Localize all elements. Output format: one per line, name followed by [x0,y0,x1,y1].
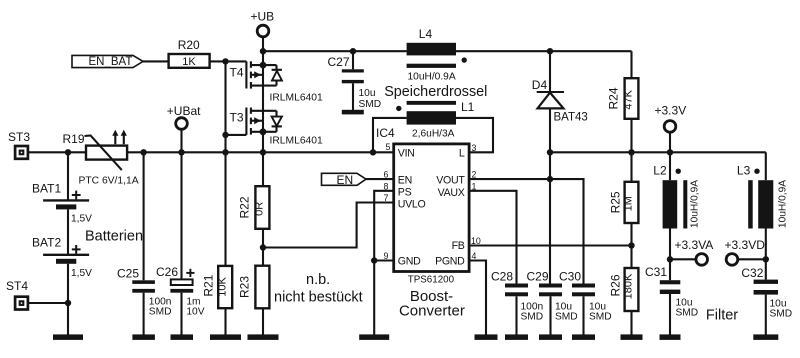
junction gate rail T3 [222,132,228,138]
svg-text:FB: FB [452,240,465,252]
svg-text:1,5V: 1,5V [71,268,92,279]
svg-text:SMD: SMD [555,312,578,323]
svg-text:BAT2: BAT2 [32,236,61,250]
transistor T4 [230,61,324,103]
ground C25 [132,334,155,340]
svg-text:EN: EN [398,174,412,186]
battery BAT2 [32,209,92,279]
transistor T3 [230,108,324,147]
inductor L2 [653,152,700,259]
svg-text:C31: C31 [645,265,667,279]
svg-text:T3: T3 [230,111,244,125]
junction ST4 / battery [65,300,71,306]
capacitor C25 [117,152,171,334]
svg-text:1K: 1K [182,56,196,68]
capacitor C29 [527,269,578,335]
ground R21 [210,334,241,340]
svg-text:+UB: +UB [251,10,275,24]
node +3.3VD [725,238,766,265]
junction +UB / top rail [260,48,266,54]
inductor L4 [407,27,467,82]
svg-text:ST4: ST4 [6,279,28,293]
svg-text:nicht bestückt: nicht bestückt [274,290,363,306]
svg-text:SMD: SMD [770,309,793,320]
wire ST4 to battery [27,302,68,304]
wire rail corner to L3 [765,152,767,180]
junction GND / PS [371,257,377,263]
IC IC4 TPS61200 boost converter [376,126,481,285]
junction battery rail / C25 [140,149,146,155]
svg-text:C32: C32 [741,266,763,280]
svg-text:R22: R22 [238,196,252,218]
junction battery rail / T3 R22 [260,149,266,155]
svg-text:PGND: PGND [435,255,465,267]
resistor R22 [238,152,270,265]
wire top rail +UB to L4 [263,50,407,52]
svg-text:C30: C30 [559,269,581,283]
wire main battery rail [27,151,393,153]
svg-text:10uH/0.9A: 10uH/0.9A [408,71,456,82]
wire PGND pin 4 to ground [469,261,486,335]
svg-text:ST3: ST3 [8,130,30,144]
wire D4 down through VOUT to C29 [549,152,551,283]
node +3.3VA [670,238,713,265]
svg-text:+3.3V: +3.3V [655,104,687,118]
node +UB [251,10,275,37]
wire EN_BAT to R20 [143,60,169,62]
diode D4 [532,51,588,152]
resistor R25 [609,152,639,245]
svg-text:L2: L2 [653,164,667,178]
junction top rail / C27 [350,48,356,54]
wire PS pin 8 to gnd rail [374,191,394,261]
wire FB pin 10 to R25/R26 [469,244,631,246]
svg-text:10K: 10K [217,276,229,296]
svg-text:GND: GND [398,255,421,267]
junction top rail / D4 [547,48,553,54]
ground IC4 GND [359,334,389,340]
svg-text:1M: 1M [623,196,635,211]
battery BAT1 [32,152,92,224]
ground C28 [505,334,528,340]
svg-text:C27: C27 [328,55,350,69]
svg-text:C28: C28 [491,269,513,283]
svg-text:EN_BAT: EN_BAT [89,56,133,68]
wire +UB rail down through T4 T3 [262,37,264,153]
svg-text:47K: 47K [623,89,635,109]
resistor R21 [201,152,232,334]
ground battery [53,334,83,340]
svg-text:10u: 10u [359,88,376,99]
svg-text:EN: EN [337,173,354,187]
svg-text:R19: R19 [63,132,85,146]
capacitor C30 [559,269,612,335]
wire L1 left lead [373,118,407,152]
ground C30 [572,334,595,340]
wire EN flag to pin 6 [366,178,394,180]
svg-text:SMD: SMD [359,99,382,110]
svg-text:R26: R26 [609,274,623,296]
ground PGND [475,334,498,340]
svg-text:IRLML6401: IRLML6401 [270,92,324,103]
svg-text:SMD: SMD [521,312,544,323]
ground C31 [660,334,681,340]
wire VOUT pin 2 to C30 [469,179,583,283]
svg-text:SMD: SMD [676,307,699,318]
svg-text:n.b.: n.b. [306,272,330,288]
svg-text:L1: L1 [461,100,475,114]
capacitor C28 [491,269,543,335]
wire battery to ground [67,264,69,335]
svg-text:IRLML6401: IRLML6401 [270,136,324,147]
svg-text:Filter: Filter [706,308,738,324]
wire VAUX pin 1 to C28 [469,191,516,284]
svg-text:R21: R21 [201,274,215,296]
svg-text:10uH/0,9A: 10uH/0,9A [690,180,701,228]
junction battery rail / BAT1 [65,149,71,155]
svg-text:L3: L3 [737,164,751,178]
svg-text:R25: R25 [609,191,623,213]
resistor R20 [169,38,210,68]
svg-text:TPS61200: TPS61200 [408,274,455,285]
ground C26 [171,334,194,340]
svg-text:D4: D4 [532,78,548,92]
svg-text:Batterien: Batterien [85,229,143,245]
junction D4 / right rail [547,149,553,155]
junction L2 / C31 / +3.3VA [667,256,673,262]
flag EN [322,173,367,187]
resistor R24 [607,51,639,152]
junction R25 R26 FB [628,242,634,248]
svg-text:R23: R23 [238,276,252,298]
svg-text:VOUT: VOUT [436,174,465,186]
svg-text:0R: 0R [254,202,266,216]
junction gate rail top [222,58,228,64]
svg-text:180K: 180K [623,273,635,299]
svg-text:SMD: SMD [589,312,612,323]
capacitor C31 [645,259,698,335]
svg-text:1,5V: 1,5V [71,214,92,225]
svg-text:R20: R20 [178,38,200,52]
svg-text:5: 5 [386,142,391,152]
junction right rail / +3.3V L2 [667,149,673,155]
svg-text:C29: C29 [527,269,549,283]
wire L1 right lead to pin L [456,118,493,152]
junction battery rail / R21 gate rail [222,149,228,155]
wire right output rail [550,151,766,153]
wire top rail L4 to R24 [456,50,632,52]
resistor R19 (PTC) [63,130,139,187]
wire gate to T3 [226,134,247,136]
ground C27 [342,110,364,115]
svg-text:R24: R24 [607,87,621,109]
svg-text:C25: C25 [117,267,139,281]
junction battery rail / L1 VIN [370,149,376,155]
svg-text:L4: L4 [419,27,433,41]
capacitor C27 [328,51,382,110]
svg-text:IC4: IC4 [376,126,395,140]
svg-text:BAT1: BAT1 [32,182,61,196]
svg-text:PTC 6V/1,1A: PTC 6V/1,1A [79,176,139,187]
resistor R26 [609,246,639,335]
svg-text:Converter: Converter [399,302,465,319]
connector ST3 [8,130,30,159]
svg-text:VAUX: VAUX [438,187,465,199]
svg-text:VIN: VIN [398,148,415,160]
svg-text:2,6uH/3A: 2,6uH/3A [412,129,455,140]
svg-text:Speicherdrossel: Speicherdrossel [384,84,487,100]
svg-text:10V: 10V [186,306,204,317]
ground C29 [539,334,562,340]
svg-text:L: L [459,148,465,160]
inductor L1 [396,100,475,140]
ground R23 [248,334,279,340]
svg-text:BAT43: BAT43 [554,111,588,123]
node +3.3V [655,104,687,153]
svg-text:10uH/0,9A: 10uH/0,9A [778,180,789,228]
svg-text:10: 10 [471,236,481,246]
capacitor C26 (electrolytic) [156,129,205,335]
junction VOUT / C29 [547,176,553,182]
svg-text:+UBat: +UBat [167,104,201,118]
svg-text:+3.3VD: +3.3VD [725,238,766,252]
svg-text:3: 3 [472,143,477,153]
capacitor C32 [741,259,792,335]
connector ST4 [6,279,28,310]
svg-text:PS: PS [398,186,412,198]
svg-text:SMD: SMD [149,306,172,317]
svg-text:T4: T4 [230,66,244,80]
ground R26 [621,334,643,340]
junction battery rail / +UBat C26 [178,149,184,155]
wire R20 to gates [210,60,247,62]
svg-text:UVLO: UVLO [398,198,426,210]
junction L3 / C32 / +3.3VD [763,256,769,262]
svg-text:C26: C26 [156,265,178,279]
wire gate rail [224,61,226,152]
junction right rail / R24 R25 [628,149,634,155]
node +UBat [167,104,201,129]
wire UVLO pin 7 to R22/R23 [263,203,394,248]
wire GND pin 9 to ground [374,261,394,335]
resistor R23 (n.b.) [238,266,270,335]
inductor L3 [737,164,789,260]
flag EN_BAT [72,55,143,68]
ground C32 [753,334,778,340]
junction R22 R23 UVLO [260,244,266,250]
svg-text:+3.3VA: +3.3VA [675,238,714,252]
